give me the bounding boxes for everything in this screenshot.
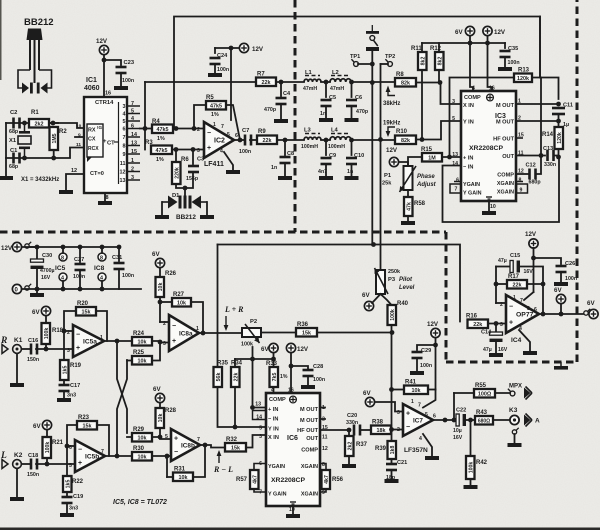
- resistor R21: [43, 437, 64, 458]
- capacitor C6: [346, 99, 357, 108]
- capacitor C28: [303, 369, 314, 378]
- wire rail to R12: [438, 43, 440, 52]
- svg-text:IC8b: IC8b: [181, 442, 195, 449]
- svg-text:IC8a: IC8a: [179, 330, 193, 337]
- wire C19 ground: [66, 504, 68, 513]
- wire R19 to C17: [63, 380, 65, 384]
- svg-text:C16: C16: [28, 338, 38, 344]
- svg-text:Phase: Phase: [417, 174, 435, 180]
- IC1 pin Q out row 7/pin 14: [127, 136, 140, 138]
- resistor R43: [475, 410, 493, 425]
- wire wiper row to R34: [234, 359, 236, 367]
- wire R7 to L1: [276, 81, 304, 83]
- svg-text:4: 4: [419, 436, 422, 442]
- resistor R37: [345, 436, 368, 456]
- svg-text:− IN: − IN: [463, 165, 473, 171]
- junction IC8a out: [201, 331, 206, 336]
- wire switch column down to pilot line: [371, 51, 373, 245]
- wire R36 to pilot node: [317, 332, 392, 334]
- wire to C14: [495, 324, 497, 333]
- wire pin 9 stub: [75, 136, 84, 138]
- ground C10: [345, 176, 359, 180]
- wire R11 to 19k line: [421, 70, 423, 140]
- wire pilot column to R35: [217, 245, 219, 368]
- wire R1 to node: [49, 122, 58, 124]
- svg-text:X1 = 3432kHz: X1 = 3432kHz: [21, 177, 59, 183]
- ground IC2: [226, 170, 240, 174]
- wire R37 ground: [348, 456, 350, 464]
- wire C22 to R43: [466, 419, 475, 421]
- svg-text:+: +: [78, 460, 82, 467]
- svg-text:C4: C4: [283, 91, 291, 97]
- IC6 XGAIN bracket with R56: [320, 464, 326, 471]
- wire P2 wiper down: [252, 347, 254, 359]
- svg-text:6: 6: [456, 178, 459, 184]
- wire R13 to C11 node: [532, 78, 559, 100]
- svg-text:IC5a: IC5a: [83, 338, 97, 345]
- inductor L3: [304, 134, 321, 141]
- wire 6V down to COMP pin4: [470, 43, 473, 91]
- svg-text:13: 13: [255, 402, 261, 408]
- IC5 supply circle pin 8: [59, 253, 67, 262]
- svg-text:R26: R26: [165, 271, 177, 277]
- svg-text:YGAIN: YGAIN: [268, 464, 285, 470]
- wire IC2 out: [234, 139, 244, 141]
- svg-text:6V: 6V: [261, 346, 269, 353]
- wire feedback to output: [542, 284, 544, 314]
- wire to C9: [325, 140, 327, 155]
- wire to R37: [348, 430, 350, 436]
- svg-text:7: 7: [455, 187, 458, 193]
- svg-text:7k5: 7k5: [272, 373, 278, 382]
- junction -in IC5a: [62, 329, 67, 334]
- resistor R20: [76, 301, 96, 316]
- svg-text:M OUT: M OUT: [300, 418, 319, 424]
- junction C30: [35, 245, 40, 250]
- op-amp IC8a: [169, 315, 199, 351]
- wire 6V to R21: [46, 430, 48, 437]
- wire riser to R55: [453, 393, 455, 420]
- svg-text:XGAIN: XGAIN: [497, 181, 514, 187]
- IC IC6 XR2208CP box: [266, 393, 320, 506]
- wire wiper row: [235, 358, 274, 360]
- resistor R9: [257, 129, 277, 144]
- wire to C15: [496, 266, 510, 268]
- IC6 YGAIN bracket with R57: [254, 464, 266, 471]
- capacitor C17: [59, 384, 70, 393]
- svg-text:1k5: 1k5: [65, 480, 71, 489]
- junction pilot/switch column: [371, 242, 376, 247]
- IC IC1 4060 CTR14 box: [84, 97, 127, 193]
- svg-text:R38: R38: [372, 420, 384, 426]
- capacitor C2: [12, 118, 21, 129]
- IC1 pin Q out row 4/pin 5: [127, 113, 140, 115]
- svg-text:6V: 6V: [455, 29, 463, 36]
- svg-text:COMP: COMP: [497, 173, 514, 179]
- junction C29: [433, 343, 438, 348]
- wire to C26: [534, 258, 562, 264]
- svg-text:R43: R43: [476, 410, 488, 416]
- wire OUT pin11: [516, 155, 545, 157]
- supply 6V (IC8b): [155, 393, 164, 402]
- svg-text:6V: 6V: [153, 386, 161, 393]
- svg-text:RX: RX: [88, 128, 96, 134]
- svg-text:3n3: 3n3: [67, 393, 76, 399]
- supply 12V (P1): [389, 157, 398, 166]
- svg-text:1M: 1M: [428, 155, 436, 161]
- svg-text:TP1: TP1: [350, 54, 360, 60]
- resistor R15: [421, 147, 442, 162]
- svg-text:68p: 68p: [9, 164, 19, 170]
- junction IC5 8: [61, 245, 66, 250]
- capacitor C26: [556, 265, 567, 274]
- svg-text:R6: R6: [181, 157, 189, 163]
- svg-text:R22: R22: [72, 479, 84, 485]
- svg-text:4: 4: [472, 86, 475, 92]
- wire R13 left to +IN column: [450, 78, 515, 158]
- resistor R23: [77, 415, 97, 430]
- wire L4 to R10: [352, 139, 396, 141]
- wire pilot node down to IC7 -in: [391, 333, 393, 429]
- wire IC5b -in: [67, 445, 75, 447]
- supply 6V (IC3): [465, 26, 474, 35]
- svg-text:R25: R25: [133, 350, 145, 356]
- wire R4 to IC2 -in: [173, 128, 204, 130]
- capacitor C27: [75, 263, 86, 272]
- svg-text:R24: R24: [133, 331, 145, 337]
- junction output/feedback: [541, 312, 546, 317]
- supply 12V (IC6): [286, 343, 295, 352]
- svg-text:C20: C20: [347, 413, 357, 419]
- scan edge left: [0, 0, 2, 80]
- wire R5 left to -in: [194, 105, 206, 129]
- svg-text:120k: 120k: [517, 76, 529, 82]
- wire to R42: [470, 420, 472, 456]
- op-amp IC2 LF411: [204, 122, 234, 158]
- svg-text:6V: 6V: [363, 390, 371, 397]
- svg-text:L + R: L + R: [224, 305, 244, 314]
- svg-text:4: 4: [131, 116, 134, 122]
- junction R2/C1 row: [51, 156, 56, 161]
- wire P1 to R15: [408, 157, 422, 166]
- resistor R18: [42, 323, 64, 344]
- svg-text:10k: 10k: [158, 283, 164, 292]
- svg-text:C29: C29: [421, 348, 431, 354]
- capacitor C19: [62, 496, 73, 505]
- wire R42 ground: [470, 479, 472, 485]
- svg-text:16V: 16V: [41, 275, 51, 281]
- svg-text:−: −: [406, 424, 410, 431]
- test switch S1: [366, 25, 379, 51]
- capacitor C22 (electrolytic): [456, 414, 466, 426]
- svg-text:12: 12: [120, 170, 126, 176]
- svg-text:OP77: OP77: [516, 311, 534, 318]
- wire to C6: [351, 82, 353, 97]
- resistor R26: [156, 271, 177, 297]
- svg-text:4060: 4060: [84, 85, 100, 92]
- svg-text:+: +: [172, 338, 176, 345]
- wire M OUT1 stub IC6: [320, 407, 325, 409]
- test point TP2: [385, 59, 392, 66]
- supply 6V external: [589, 309, 598, 318]
- wire 12V rail bottom: [30, 246, 119, 248]
- IC1 pin Q out row 6/pin 6: [127, 128, 140, 130]
- svg-text:−: −: [509, 303, 513, 310]
- wire supply rail: [422, 42, 505, 44]
- svg-text:R15: R15: [421, 147, 433, 153]
- potentiometer P2: [242, 328, 261, 337]
- plug K3 shield: [512, 428, 518, 434]
- wire top line to IC3 OUT drop: [174, 17, 540, 129]
- junction C31: [117, 245, 122, 250]
- svg-text:D1: D1: [172, 193, 180, 199]
- svg-text:R − L: R − L: [213, 465, 233, 474]
- svg-text:C21: C21: [397, 460, 407, 466]
- svg-text:R33: R33: [266, 361, 278, 367]
- svg-text:4k7: 4k7: [324, 475, 330, 484]
- junction X1 top: [22, 121, 27, 126]
- svg-text:+: +: [509, 319, 513, 326]
- resistor R36: [296, 322, 317, 337]
- svg-text:+ IN: + IN: [268, 407, 278, 413]
- junction R11/19k: [420, 137, 425, 142]
- svg-text:IC6: IC6: [287, 435, 298, 442]
- svg-text:IC7: IC7: [413, 417, 423, 424]
- svg-text:TP2: TP2: [385, 54, 395, 60]
- wire C23 to ground: [120, 74, 122, 86]
- ground C5: [319, 118, 333, 122]
- resistor R30: [132, 446, 152, 461]
- wire 12V down: [435, 338, 437, 390]
- svg-text:R21: R21: [52, 440, 64, 446]
- svg-text:47µ: 47µ: [498, 258, 507, 264]
- svg-text:L2: L2: [332, 70, 339, 76]
- wire R3 to IC2 +in: [172, 149, 204, 151]
- wire 12V to C24: [215, 47, 239, 49]
- svg-text:L: L: [0, 451, 7, 461]
- svg-text:10µ: 10µ: [453, 428, 462, 434]
- op-amp IC8b: [171, 429, 200, 461]
- svg-text:22k: 22k: [513, 282, 522, 288]
- svg-text:OUT: OUT: [502, 154, 514, 160]
- ground IC7: [425, 456, 439, 460]
- wire C16 to IC5a +in: [36, 348, 73, 350]
- svg-text:7: 7: [520, 298, 523, 304]
- svg-text:P2: P2: [250, 319, 257, 325]
- capacitor C18: [30, 459, 39, 470]
- svg-text:10k: 10k: [412, 388, 421, 394]
- dashed border OP77 box left: [445, 232, 448, 362]
- wire oscillator top row to pin10: [6, 123, 84, 128]
- svg-text:3: 3: [500, 322, 503, 328]
- wire 12V to pin16: [290, 353, 292, 393]
- ground C35: [498, 67, 512, 71]
- wire to C23: [104, 60, 121, 65]
- connector 0V: [12, 284, 21, 293]
- svg-text:100Ω: 100Ω: [478, 391, 492, 397]
- svg-text:8: 8: [61, 256, 64, 262]
- svg-text:R23: R23: [78, 415, 90, 421]
- svg-text:R3: R3: [145, 140, 153, 146]
- ground C29: [410, 371, 424, 375]
- svg-text:L1: L1: [305, 70, 313, 76]
- wire C5 ground: [325, 107, 327, 118]
- supply 6V (IC5a): [41, 306, 50, 315]
- svg-text:C12: C12: [526, 163, 536, 169]
- test point TP1: [351, 59, 358, 66]
- capacitor C10: [346, 157, 357, 166]
- junction 12V rail: [485, 41, 490, 46]
- svg-text:7: 7: [131, 101, 134, 107]
- svg-text:R20: R20: [77, 301, 89, 307]
- svg-text:6: 6: [235, 133, 238, 139]
- wire R41 to pilot column: [392, 389, 405, 391]
- wire IC5a -in: [64, 330, 73, 332]
- ground C28: [301, 385, 315, 389]
- supply 6V (IC7): [365, 397, 374, 406]
- svg-text:10: 10: [490, 204, 496, 210]
- junction OUT node: [556, 155, 561, 160]
- capacitor C9: [321, 157, 332, 166]
- svg-text:22k: 22k: [473, 322, 482, 328]
- ground R42: [464, 485, 478, 489]
- svg-text:100n: 100n: [122, 78, 134, 84]
- svg-text:IC5: IC5: [55, 265, 66, 272]
- wire wiper to pins 13/14: [253, 359, 267, 408]
- resistor R22: [63, 476, 84, 492]
- svg-text:2k2: 2k2: [347, 442, 353, 451]
- junction L4 out: [349, 138, 354, 143]
- capacitor C15 (electrolytic): [510, 261, 520, 273]
- junction R1/R2: [51, 121, 56, 126]
- wire C10 ground: [351, 165, 353, 176]
- IC5 supply circle pin 4: [59, 273, 67, 282]
- svg-text:LF411: LF411: [204, 161, 224, 168]
- svg-text:R30: R30: [133, 446, 145, 452]
- IC3 internal plus symbol: [487, 94, 494, 101]
- wire C4 to ground: [280, 105, 282, 119]
- IC3 HF OUT stub: [516, 137, 523, 139]
- inductor L1: [304, 76, 321, 83]
- wire clock drop: [539, 17, 541, 78]
- wire to R17: [496, 283, 507, 285]
- resistor R31: [173, 467, 193, 482]
- ground IC1 pin 12: [59, 190, 73, 194]
- wire R34 to Y IN row: [234, 387, 236, 427]
- wire 6V to R18: [45, 316, 47, 323]
- label 19kHz with arrow: [383, 121, 400, 138]
- wire C35 stem: [504, 43, 506, 48]
- wire cross B (L to IC8a): [117, 360, 127, 456]
- svg-text:R56: R56: [332, 477, 344, 483]
- wire R29 to +in: [152, 437, 171, 439]
- IC1 pin Q out row 9/pin 15: [127, 153, 140, 155]
- svg-text:12V: 12V: [1, 245, 13, 252]
- svg-text:RCX: RCX: [88, 146, 99, 152]
- wire R23 left to -in: [67, 425, 77, 446]
- supply 6V (P3): [364, 301, 373, 310]
- svg-text:100n: 100n: [122, 273, 134, 279]
- IC1 pin Q out row 12/pin 2: [127, 171, 140, 173]
- wire C29 ground: [416, 359, 418, 371]
- svg-text:R: R: [0, 336, 7, 346]
- svg-text:22k: 22k: [262, 80, 271, 86]
- ground C9: [319, 176, 333, 180]
- P1 wiper arrow: [400, 166, 417, 192]
- dashed separator horizontal: [0, 231, 446, 234]
- junction C30 bottom: [35, 287, 40, 292]
- junction -in IC8b: [165, 454, 170, 459]
- svg-text:R55: R55: [475, 383, 487, 389]
- svg-text:2: 2: [397, 427, 400, 433]
- svg-text:12V: 12V: [252, 46, 264, 53]
- wire to R55: [454, 392, 474, 394]
- wire 6V to IC7 +in: [375, 402, 403, 412]
- ground C21: [385, 479, 399, 483]
- svg-text:YGAIN: YGAIN: [463, 182, 480, 188]
- supply 6V (IC6): [269, 343, 278, 352]
- plug 12V: [25, 242, 31, 248]
- wire IC3 pin10 ground: [488, 201, 490, 211]
- wire to R6: [175, 150, 177, 163]
- svg-text:2k2: 2k2: [35, 121, 44, 127]
- svg-text:15k: 15k: [231, 445, 240, 451]
- svg-text:18k: 18k: [377, 428, 386, 434]
- svg-text:Adjust: Adjust: [416, 182, 437, 188]
- svg-text:R13: R13: [518, 68, 530, 74]
- svg-text:R9: R9: [258, 129, 266, 135]
- wire 0V rail: [22, 288, 142, 290]
- svg-text:82k: 82k: [401, 80, 410, 86]
- svg-text:BB212: BB212: [176, 214, 196, 221]
- svg-text:680Ω: 680Ω: [478, 418, 490, 424]
- ground C19: [60, 513, 74, 517]
- wire 6V to R33: [273, 353, 275, 367]
- junction IC8 4: [100, 287, 105, 292]
- svg-text:12V: 12V: [525, 231, 537, 238]
- resistor R8: [395, 72, 416, 87]
- resistor R13: [514, 68, 532, 83]
- svg-text:120k: 120k: [557, 132, 563, 144]
- connector K2 (L input): [0, 451, 23, 469]
- svg-text:X IN: X IN: [463, 103, 474, 109]
- svg-text:15k: 15k: [82, 309, 91, 315]
- wire R15 to +IN: [442, 156, 461, 158]
- svg-text:BB212: BB212: [24, 17, 54, 28]
- svg-text:7: 7: [418, 403, 421, 409]
- svg-text:1%: 1%: [157, 136, 165, 142]
- svg-text:6: 6: [131, 124, 134, 130]
- ground D1 right: [200, 215, 214, 219]
- wire -in OP77: [496, 302, 506, 304]
- svg-text:6V: 6V: [554, 287, 562, 294]
- resistor R56: [322, 470, 344, 489]
- svg-text:C2: C2: [10, 110, 17, 116]
- junction 19k pickup: [378, 137, 383, 142]
- svg-text:14: 14: [256, 415, 262, 421]
- ground C6: [345, 118, 359, 122]
- wire R30 to -in: [152, 455, 171, 457]
- resistor R2: [50, 127, 68, 150]
- wire R17 to output column: [527, 283, 543, 285]
- wire R43 to K3: [493, 419, 510, 421]
- wire C15 to output column: [520, 267, 543, 285]
- wire C6 ground: [351, 107, 353, 118]
- wire C24 stem: [214, 48, 216, 53]
- svg-text:IC1: IC1: [86, 77, 97, 84]
- wire M OUT2 stub IC6: [320, 418, 325, 420]
- capacitor C23: [116, 66, 127, 75]
